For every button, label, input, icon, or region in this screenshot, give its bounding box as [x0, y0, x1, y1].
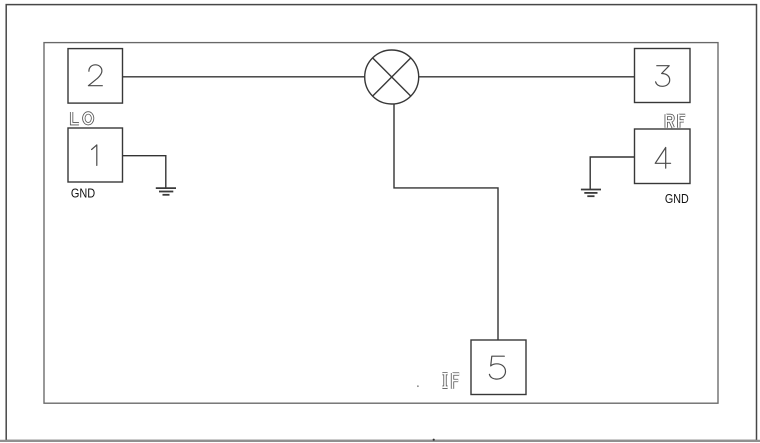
svg-text:GND: GND	[665, 191, 689, 206]
svg-text:GND: GND	[71, 186, 95, 201]
